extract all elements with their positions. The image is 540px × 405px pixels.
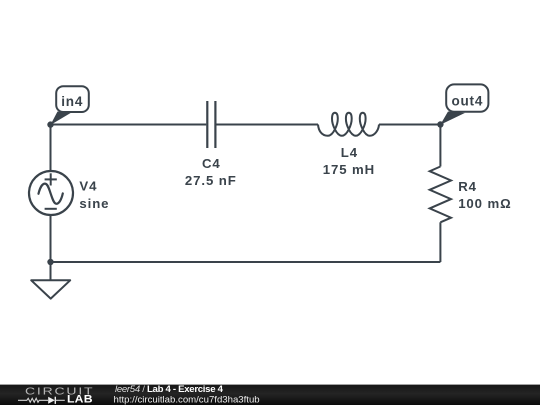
svg-text:LAB: LAB — [67, 394, 93, 405]
svg-text:R4: R4 — [458, 179, 477, 194]
voltage source V4 — [29, 171, 73, 215]
wire: V4 top lead — [50, 125, 52, 172]
svg-text:C4: C4 — [202, 156, 221, 171]
svg-text:V4: V4 — [79, 179, 97, 194]
capacitor C4 — [207, 101, 215, 148]
footer bar — [0, 385, 540, 405]
wire: bottom return — [51, 261, 441, 263]
svg-text:in4: in4 — [61, 94, 83, 109]
svg-text:sine: sine — [79, 196, 109, 211]
wire top-right: L4 to out4 node — [379, 124, 440, 126]
wire: R4 bottom lead — [439, 222, 441, 262]
ground symbol — [31, 262, 70, 299]
logo mini schematic wire with resistor — [18, 398, 48, 402]
inductor L4 coil — [318, 113, 379, 136]
flag out4 box — [446, 84, 488, 111]
svg-text:175 mH: 175 mH — [323, 162, 375, 177]
node in4 junction dot — [47, 121, 53, 127]
flag out4 pointer — [440, 112, 465, 125]
wire: V4 bottom lead — [50, 215, 52, 262]
svg-text:out4: out4 — [451, 93, 483, 108]
wire top-left: in4 node to C4 left plate — [51, 124, 207, 126]
node out4 junction dot — [437, 121, 443, 127]
svg-text:100 mΩ: 100 mΩ — [458, 196, 511, 211]
svg-text:http://circuitlab.com/cu7fd3ha: http://circuitlab.com/cu7fd3ha3ftub — [114, 394, 260, 405]
node ground junction dot — [47, 259, 53, 265]
flag in4 box — [56, 86, 89, 112]
wire: R4 top lead — [439, 125, 441, 167]
svg-text:27.5 nF: 27.5 nF — [185, 173, 237, 188]
resistor R4 zigzag — [430, 167, 451, 223]
flag in4 pointer — [50, 112, 70, 126]
logo mini diode — [48, 397, 55, 404]
wire top-mid: C4 right plate to L4 — [216, 124, 318, 126]
svg-text:L4: L4 — [341, 145, 358, 160]
